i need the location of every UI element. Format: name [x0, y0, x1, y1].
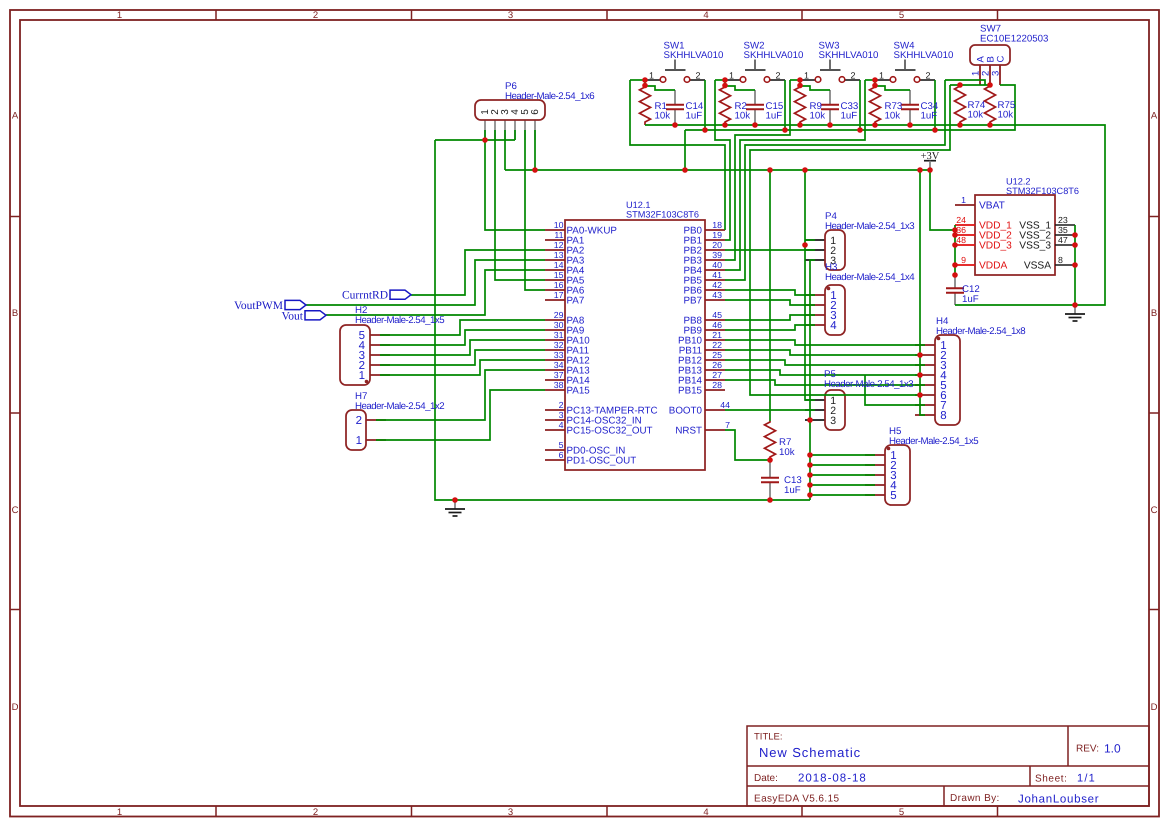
svg-text:3: 3 — [508, 807, 513, 818]
svg-text:2: 2 — [313, 10, 318, 21]
svg-text:48: 48 — [956, 235, 966, 245]
svg-text:Header-Male-2.54_1x3: Header-Male-2.54_1x3 — [825, 221, 914, 232]
svg-text:5: 5 — [899, 10, 904, 21]
svg-text:VDDA: VDDA — [979, 260, 1008, 271]
svg-text:4: 4 — [830, 320, 837, 332]
svg-text:D: D — [12, 702, 19, 713]
svg-text:EC10E1220503: EC10E1220503 — [980, 34, 1048, 45]
svg-text:C: C — [1151, 505, 1158, 516]
svg-text:PB15: PB15 — [678, 385, 703, 396]
svg-text:36: 36 — [956, 225, 966, 235]
svg-text:32: 32 — [554, 340, 564, 350]
svg-text:1uF: 1uF — [841, 111, 858, 122]
svg-text:25: 25 — [712, 350, 722, 360]
svg-text:2: 2 — [850, 70, 855, 80]
svg-text:29: 29 — [554, 310, 564, 320]
svg-text:3: 3 — [508, 10, 513, 21]
svg-text:1uF: 1uF — [766, 111, 783, 122]
svg-text:C: C — [996, 56, 1007, 63]
svg-text:6: 6 — [559, 450, 564, 460]
svg-text:12: 12 — [554, 240, 564, 250]
svg-text:VSS_3: VSS_3 — [1019, 240, 1051, 251]
svg-text:47: 47 — [1058, 235, 1068, 245]
svg-text:42: 42 — [712, 280, 722, 290]
svg-text:Vout: Vout — [281, 310, 303, 322]
svg-text:5: 5 — [899, 807, 904, 818]
svg-text:27: 27 — [712, 370, 722, 380]
svg-text:Drawn By:: Drawn By: — [950, 793, 1000, 804]
svg-text:10k: 10k — [998, 110, 1014, 121]
svg-text:1: 1 — [359, 370, 365, 382]
svg-text:U12.1: U12.1 — [626, 200, 651, 210]
svg-text:43: 43 — [712, 290, 722, 300]
svg-text:1: 1 — [649, 70, 654, 80]
svg-text:A: A — [12, 111, 19, 122]
svg-text:3: 3 — [559, 410, 564, 420]
svg-text:BOOT0: BOOT0 — [669, 405, 703, 416]
svg-text:Header-Male-2.54_1x3: Header-Male-2.54_1x3 — [824, 379, 913, 390]
svg-text:2: 2 — [559, 400, 564, 410]
svg-text:JohanLoubser: JohanLoubser — [1018, 794, 1099, 806]
svg-text:1.0: 1.0 — [1104, 742, 1121, 756]
svg-text:26: 26 — [712, 360, 722, 370]
svg-text:2018-08-18: 2018-08-18 — [798, 773, 867, 785]
svg-text:2: 2 — [313, 807, 318, 818]
svg-text:STM32F103C8T6: STM32F103C8T6 — [626, 210, 699, 220]
svg-text:10k: 10k — [655, 111, 671, 122]
svg-text:1: 1 — [356, 435, 362, 447]
svg-text:B: B — [1151, 308, 1157, 319]
svg-text:SKHHLVA010: SKHHLVA010 — [819, 50, 880, 61]
svg-text:20: 20 — [712, 240, 722, 250]
svg-text:Header-Male-2.54_1x5: Header-Male-2.54_1x5 — [355, 315, 444, 326]
svg-text:VSSA: VSSA — [1024, 260, 1051, 271]
svg-text:D: D — [1151, 702, 1158, 713]
svg-text:EasyEDA V5.6.15: EasyEDA V5.6.15 — [754, 794, 840, 805]
svg-text:1uF: 1uF — [686, 111, 703, 122]
svg-text:New Schematic: New Schematic — [759, 745, 861, 760]
svg-text:22: 22 — [712, 340, 722, 350]
svg-text:10k: 10k — [779, 447, 795, 458]
svg-text:23: 23 — [1058, 215, 1068, 225]
svg-text:REV:: REV: — [1076, 744, 1099, 755]
svg-text:14: 14 — [554, 260, 564, 270]
svg-text:16: 16 — [554, 280, 564, 290]
svg-text:Header-Male-2.54_1x8: Header-Male-2.54_1x8 — [936, 326, 1025, 337]
svg-text:2: 2 — [356, 415, 362, 427]
svg-text:VoutPWM: VoutPWM — [234, 300, 283, 312]
svg-text:STM32F103C8T6: STM32F103C8T6 — [1006, 186, 1079, 196]
svg-text:2: 2 — [925, 70, 930, 80]
svg-text:19: 19 — [712, 230, 722, 240]
svg-text:1: 1 — [117, 10, 122, 21]
svg-text:46: 46 — [712, 320, 722, 330]
svg-text:PA15: PA15 — [567, 385, 591, 396]
svg-text:18: 18 — [712, 220, 722, 230]
svg-text:U12.2: U12.2 — [1006, 177, 1031, 187]
svg-text:Sheet:: Sheet: — [1035, 774, 1068, 785]
svg-text:1: 1 — [961, 195, 966, 205]
svg-text:34: 34 — [554, 360, 564, 370]
svg-text:10k: 10k — [735, 111, 751, 122]
svg-text:Header-Male-2.54_1x2: Header-Male-2.54_1x2 — [355, 401, 444, 412]
svg-text:15: 15 — [554, 270, 564, 280]
svg-text:44: 44 — [720, 400, 730, 410]
svg-text:SKHHLVA010: SKHHLVA010 — [894, 50, 955, 61]
svg-text:35: 35 — [1058, 225, 1068, 235]
svg-text:37: 37 — [554, 370, 564, 380]
svg-text:45: 45 — [712, 310, 722, 320]
svg-text:4: 4 — [559, 420, 564, 430]
svg-text:21: 21 — [712, 330, 722, 340]
svg-text:PB7: PB7 — [683, 295, 702, 306]
svg-text:5: 5 — [890, 490, 896, 502]
svg-text:Header-Male-2.54_1x4: Header-Male-2.54_1x4 — [825, 272, 915, 283]
svg-text:Header-Male-2.54_1x6: Header-Male-2.54_1x6 — [505, 91, 594, 102]
svg-text:NRST: NRST — [675, 425, 702, 436]
svg-text:1/1: 1/1 — [1077, 773, 1096, 785]
svg-text:PC15-OSC32_OUT: PC15-OSC32_OUT — [567, 425, 653, 436]
svg-text:8: 8 — [940, 410, 946, 422]
svg-text:4: 4 — [703, 10, 708, 21]
svg-text:+3V: +3V — [921, 151, 940, 162]
svg-text:B: B — [12, 308, 18, 319]
svg-text:4: 4 — [703, 807, 708, 818]
svg-text:38: 38 — [554, 380, 564, 390]
svg-text:17: 17 — [554, 290, 564, 300]
svg-text:9: 9 — [961, 255, 966, 265]
svg-text:41: 41 — [712, 270, 722, 280]
svg-text:PA7: PA7 — [567, 295, 585, 306]
svg-text:TITLE:: TITLE: — [754, 732, 783, 743]
svg-text:CurrntRD: CurrntRD — [342, 290, 388, 302]
svg-text:1: 1 — [729, 70, 734, 80]
svg-text:8: 8 — [1058, 255, 1063, 265]
svg-text:7: 7 — [725, 420, 730, 430]
svg-text:Date:: Date: — [754, 773, 778, 784]
svg-text:24: 24 — [956, 215, 966, 225]
svg-text:1uF: 1uF — [921, 111, 938, 122]
svg-text:SKHHLVA010: SKHHLVA010 — [744, 50, 805, 61]
svg-text:SKHHLVA010: SKHHLVA010 — [664, 50, 725, 61]
svg-text:1uF: 1uF — [784, 485, 801, 496]
svg-text:28: 28 — [712, 380, 722, 390]
svg-text:PD1-OSC_OUT: PD1-OSC_OUT — [567, 455, 637, 466]
svg-text:1: 1 — [804, 70, 809, 80]
svg-text:10: 10 — [554, 220, 564, 230]
svg-text:40: 40 — [712, 260, 722, 270]
svg-text:C: C — [12, 505, 19, 516]
svg-text:VDD_3: VDD_3 — [979, 240, 1012, 251]
svg-text:13: 13 — [554, 250, 564, 260]
svg-text:1: 1 — [879, 70, 884, 80]
svg-text:30: 30 — [554, 320, 564, 330]
svg-text:33: 33 — [554, 350, 564, 360]
svg-text:1: 1 — [117, 807, 122, 818]
svg-text:6: 6 — [530, 109, 541, 115]
svg-text:3: 3 — [991, 71, 1002, 76]
svg-text:VBAT: VBAT — [979, 200, 1005, 211]
svg-text:10k: 10k — [810, 111, 826, 122]
svg-text:31: 31 — [554, 330, 564, 340]
svg-text:Header-Male-2.54_1x5: Header-Male-2.54_1x5 — [889, 436, 978, 447]
svg-text:39: 39 — [712, 250, 722, 260]
svg-text:5: 5 — [559, 440, 564, 450]
svg-text:A: A — [1151, 111, 1158, 122]
svg-text:11: 11 — [554, 230, 563, 240]
svg-text:10k: 10k — [885, 111, 901, 122]
svg-text:2: 2 — [695, 70, 700, 80]
svg-text:10k: 10k — [968, 110, 984, 121]
svg-text:2: 2 — [775, 70, 780, 80]
svg-text:1uF: 1uF — [962, 294, 979, 305]
svg-text:3: 3 — [830, 415, 836, 427]
